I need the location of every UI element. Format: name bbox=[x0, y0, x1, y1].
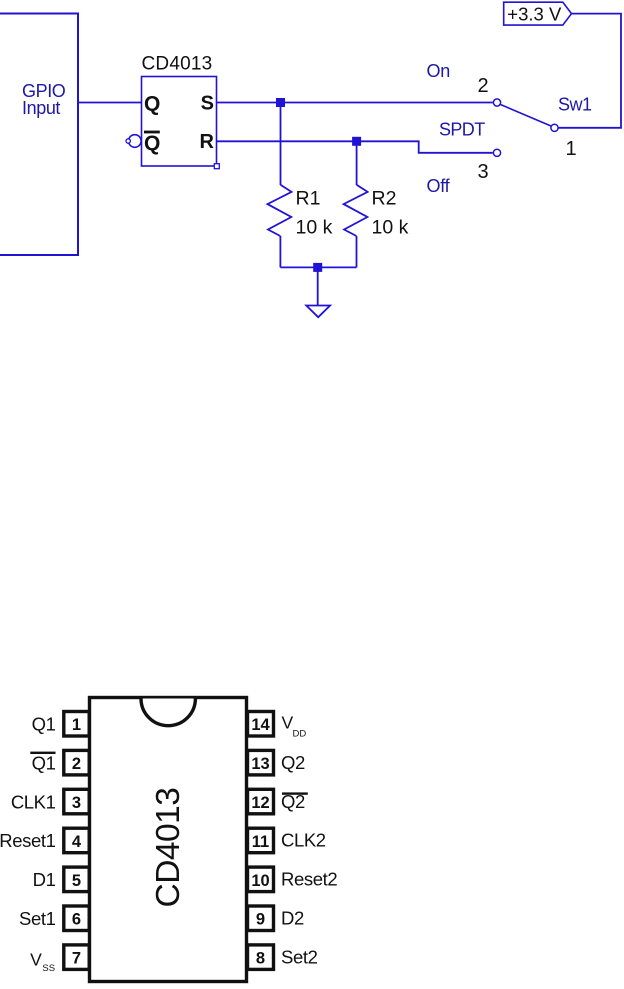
svg-text:CLK1: CLK1 bbox=[11, 791, 56, 812]
svg-text:10 k: 10 k bbox=[296, 217, 333, 239]
pin 1 bbox=[64, 712, 89, 737]
wire node S down to R1 bbox=[280, 103, 282, 186]
IC notch bbox=[141, 699, 195, 726]
svg-text:Set2: Set2 bbox=[281, 946, 318, 967]
svg-text:Q: Q bbox=[144, 93, 160, 116]
svg-text:Reset2: Reset2 bbox=[281, 869, 337, 890]
svg-text:Q1: Q1 bbox=[32, 714, 56, 735]
svg-text:10: 10 bbox=[251, 872, 269, 890]
svg-text:1: 1 bbox=[566, 138, 577, 160]
svg-text:R1: R1 bbox=[296, 188, 321, 210]
svg-text:V: V bbox=[30, 949, 42, 969]
svg-text:1: 1 bbox=[72, 716, 81, 734]
svg-text:2: 2 bbox=[72, 755, 81, 773]
svg-text:Sw1: Sw1 bbox=[558, 95, 592, 115]
svg-text:CLK2: CLK2 bbox=[281, 830, 326, 851]
IC package CD4013 body bbox=[90, 698, 247, 982]
pin 9 bbox=[248, 906, 274, 931]
svg-text:3: 3 bbox=[478, 161, 489, 183]
svg-text:CD4013: CD4013 bbox=[142, 54, 213, 75]
svg-text:CD4013: CD4013 bbox=[150, 788, 187, 908]
svg-text:13: 13 bbox=[251, 755, 269, 773]
pin 7 bbox=[64, 945, 89, 970]
wire GPIO to Q input bbox=[78, 102, 142, 104]
resistor R2 bbox=[344, 185, 368, 236]
svg-text:6: 6 bbox=[72, 911, 81, 929]
pin 10 bbox=[248, 867, 274, 892]
svg-text:14: 14 bbox=[251, 716, 270, 734]
node junction ground bbox=[313, 263, 322, 272]
resistor R1 bbox=[268, 185, 292, 236]
svg-text:7: 7 bbox=[72, 950, 81, 968]
svg-text:3: 3 bbox=[72, 794, 81, 812]
flip-flop U1 CD4013 body bbox=[142, 77, 217, 167]
svg-text:S: S bbox=[201, 93, 214, 115]
svg-text:DD: DD bbox=[293, 728, 307, 739]
svg-text:+3.3 V: +3.3 V bbox=[507, 3, 562, 24]
pin 4 bbox=[64, 828, 89, 853]
pin 13 bbox=[248, 750, 274, 775]
svg-text:11: 11 bbox=[252, 833, 269, 851]
switch Sw1 pin 3 contact bbox=[493, 149, 500, 156]
pin 6 bbox=[64, 906, 89, 931]
svg-text:4: 4 bbox=[72, 833, 82, 851]
svg-text:D1: D1 bbox=[33, 869, 56, 890]
inversion bubble on Q-bar output bbox=[129, 135, 142, 148]
svg-text:SPDT: SPDT bbox=[439, 120, 485, 140]
svg-text:Q1: Q1 bbox=[32, 752, 56, 773]
svg-text:On: On bbox=[427, 61, 450, 81]
pin 2 bbox=[64, 750, 89, 775]
svg-text:SS: SS bbox=[42, 963, 55, 974]
power flag +3.3V bbox=[504, 2, 572, 25]
node junction S bbox=[276, 98, 285, 107]
wire common to +3.3V bbox=[559, 14, 622, 128]
svg-text:Off: Off bbox=[427, 176, 451, 196]
svg-text:Q2: Q2 bbox=[281, 752, 305, 773]
svg-text:Input: Input bbox=[22, 98, 60, 118]
svg-text:Reset1: Reset1 bbox=[0, 830, 56, 851]
unconnected pin marker bbox=[126, 139, 130, 143]
switch Sw1 common contact bbox=[551, 124, 558, 131]
open square marker at flip-flop corner bbox=[214, 164, 219, 169]
pin 11 bbox=[248, 828, 274, 853]
svg-text:10 k: 10 k bbox=[372, 217, 409, 239]
svg-text:9: 9 bbox=[256, 911, 265, 929]
svg-text:D2: D2 bbox=[281, 908, 304, 929]
pin 8 bbox=[248, 945, 274, 970]
svg-text:Set1: Set1 bbox=[19, 908, 56, 929]
pin 5 bbox=[64, 867, 89, 892]
switch Sw1 pin 2 contact bbox=[493, 99, 500, 106]
wire S output to switch pin 2 bbox=[217, 102, 493, 104]
svg-text:5: 5 bbox=[72, 872, 81, 890]
pin 12 bbox=[248, 789, 274, 814]
svg-text:8: 8 bbox=[256, 950, 265, 968]
svg-text:2: 2 bbox=[478, 75, 489, 97]
wire node R down to R2 bbox=[356, 141, 358, 185]
svg-text:R2: R2 bbox=[372, 188, 397, 210]
svg-text:R: R bbox=[200, 131, 215, 153]
node junction R bbox=[352, 137, 361, 146]
svg-text:Q: Q bbox=[144, 132, 160, 155]
wire joining resistor bottoms bbox=[280, 266, 356, 268]
pin 14 bbox=[248, 712, 274, 737]
ground bbox=[306, 306, 330, 318]
GPIO input box bbox=[0, 14, 78, 256]
switch Sw1 arm bbox=[501, 105, 552, 127]
pin 3 bbox=[64, 789, 89, 814]
wire R output bbox=[217, 141, 493, 153]
svg-text:12: 12 bbox=[251, 794, 269, 812]
wire node to ground bbox=[317, 267, 319, 305]
